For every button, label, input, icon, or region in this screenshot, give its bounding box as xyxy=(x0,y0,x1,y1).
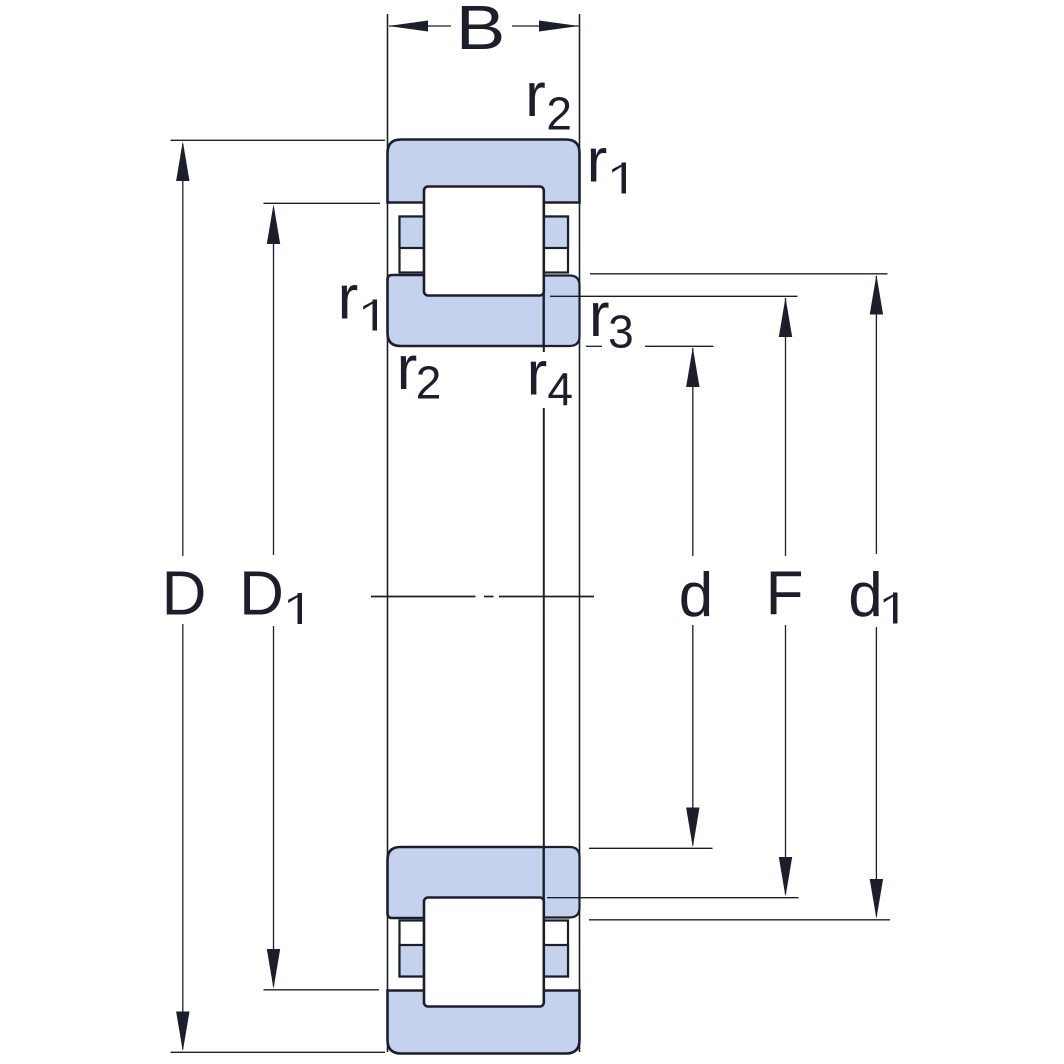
svg-text:r: r xyxy=(525,61,546,130)
svg-text:r: r xyxy=(527,340,548,409)
svg-text:D: D xyxy=(162,560,207,629)
svg-text:3: 3 xyxy=(608,306,634,358)
svg-text:d: d xyxy=(848,561,882,630)
svg-text:d: d xyxy=(679,561,713,630)
svg-text:2: 2 xyxy=(416,356,442,408)
svg-text:B: B xyxy=(456,0,506,63)
svg-text:D: D xyxy=(239,560,284,629)
svg-text:r: r xyxy=(587,127,608,196)
svg-text:F: F xyxy=(766,560,804,629)
svg-text:2: 2 xyxy=(546,88,572,140)
svg-text:r: r xyxy=(397,334,418,403)
svg-text:4: 4 xyxy=(547,363,573,415)
svg-text:r: r xyxy=(589,281,610,350)
svg-text:r: r xyxy=(338,264,359,333)
